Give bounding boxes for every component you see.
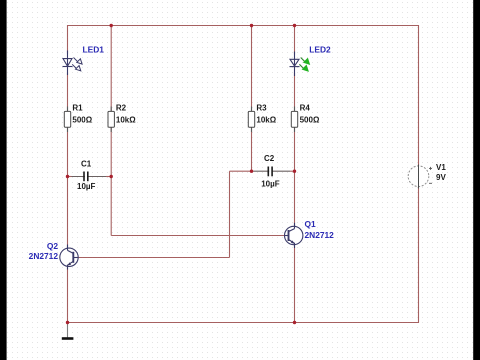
- junction top rail R2: [110, 24, 113, 27]
- label C2 10uF: [261, 154, 280, 188]
- svg-text:10µF: 10µF: [77, 182, 96, 191]
- resistor R4: [291, 107, 297, 133]
- junction top rail R3: [250, 24, 253, 27]
- svg-text:10kΩ: 10kΩ: [116, 115, 136, 124]
- svg-text:LED2: LED2: [309, 45, 331, 55]
- junction ground: [66, 321, 69, 324]
- junction C2 right: [293, 170, 296, 173]
- svg-text:R1: R1: [72, 104, 83, 113]
- label Q1: [305, 219, 335, 240]
- wire left branch (LED1/R1/Q2 column): [67, 25, 69, 323]
- svg-text:V1: V1: [436, 163, 446, 172]
- voltage source V1: [408, 165, 432, 189]
- wire Q2 base horizontal: [78, 257, 229, 259]
- video letterbox left: [0, 0, 7, 360]
- resistor R2: [108, 107, 114, 133]
- capacitor C1: [84, 171, 88, 182]
- label R1 500ohm: [72, 104, 92, 125]
- wire C1 horizontal: [68, 176, 112, 178]
- svg-text:10µF: 10µF: [261, 179, 280, 188]
- svg-text:2N2712: 2N2712: [305, 230, 335, 240]
- label R2 10kohm: [116, 104, 136, 125]
- svg-text:C1: C1: [81, 160, 92, 169]
- svg-text:R3: R3: [256, 104, 267, 113]
- svg-text:Q2: Q2: [47, 241, 59, 251]
- wire bottom rail: [68, 322, 419, 324]
- label C1 10uF: [77, 160, 96, 192]
- svg-text:LED1: LED1: [83, 45, 105, 55]
- wire C2 horizontal: [230, 170, 295, 172]
- LED LED1: [63, 51, 73, 76]
- svg-text:500Ω: 500Ω: [72, 115, 92, 124]
- video letterbox right: [473, 0, 480, 360]
- wire R2 branch (to Q1 base): [111, 26, 284, 236]
- svg-text:9V: 9V: [436, 173, 446, 182]
- junction Q1 emitter bottom: [293, 321, 296, 324]
- junction C1 left: [66, 175, 69, 178]
- svg-text:10kΩ: 10kΩ: [256, 115, 276, 124]
- wire LED2/R4/Q1 branch: [294, 26, 296, 323]
- svg-text:2N2712: 2N2712: [29, 251, 59, 261]
- ground: [62, 323, 74, 339]
- resistor R1: [64, 107, 70, 133]
- junction C1 right: [110, 175, 113, 178]
- label V1 9V: [436, 163, 446, 182]
- wire C2-left to Q2 base vertical: [229, 171, 231, 257]
- LED LED2: [290, 52, 300, 77]
- label Q2: [29, 241, 59, 261]
- junction top rail LED2: [293, 24, 296, 27]
- transistor Q1: [285, 223, 303, 248]
- LED LED2 emission arrows (lit): [299, 58, 309, 71]
- label R4 500ohm: [300, 104, 320, 125]
- resistor R3: [248, 107, 254, 133]
- junction C2 at R3: [250, 170, 253, 173]
- svg-text:R4: R4: [300, 104, 311, 113]
- svg-text:Q1: Q1: [305, 219, 317, 229]
- wire top rail: [68, 25, 419, 27]
- capacitor C2: [268, 166, 272, 177]
- LED LED1 emission arrows: [72, 58, 82, 71]
- svg-text:R2: R2: [116, 104, 127, 113]
- transistor Q2: [60, 245, 78, 270]
- wire V1 branch: [418, 25, 420, 323]
- wire R3 branch: [251, 26, 253, 172]
- svg-text:C2: C2: [264, 154, 275, 163]
- label R3 10kohm: [256, 104, 276, 125]
- svg-text:500Ω: 500Ω: [300, 115, 320, 124]
